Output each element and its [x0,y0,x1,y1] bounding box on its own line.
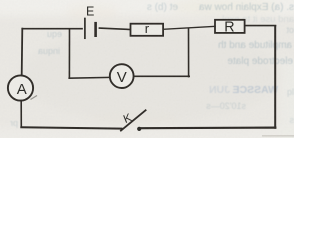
wire bottom right (switch to corner) [141,126,275,129]
scan smudge left of bottom wire start [31,96,38,100]
wire r to R [163,26,215,29]
ammeter A [8,75,33,100]
bleed-through WASSCE heading [209,84,278,96]
wire left vertical upper (corner to ammeter) [21,29,24,76]
wire R to top-right corner [245,25,276,27]
resistor R box [215,20,245,33]
wire right vertical [274,26,276,128]
switch pivot contact dot [137,127,141,131]
resistor r box [131,24,164,36]
bottom edge smudge [262,135,294,137]
paper background [0,0,294,138]
circuit drawing [8,19,276,132]
wire voltmeter right horizontal [134,75,190,77]
switch K blade [121,110,146,130]
wire top-left horizontal (corner to battery) [22,28,82,30]
wire battery to r [99,28,130,29]
wire bottom left (corner to switch) [21,127,121,128]
node junction to voltmeter branch [188,29,190,77]
bleed-through text (mirrored, back of page) [10,2,294,128]
battery short plate [94,23,97,36]
wire voltmeter left horizontal [69,76,110,79]
voltmeter V [110,64,134,88]
battery long plate [84,19,86,39]
wire left vertical lower (ammeter to bottom corner) [20,101,22,127]
scan grain overlay [0,0,294,138]
wire voltmeter left vertical [68,29,70,78]
